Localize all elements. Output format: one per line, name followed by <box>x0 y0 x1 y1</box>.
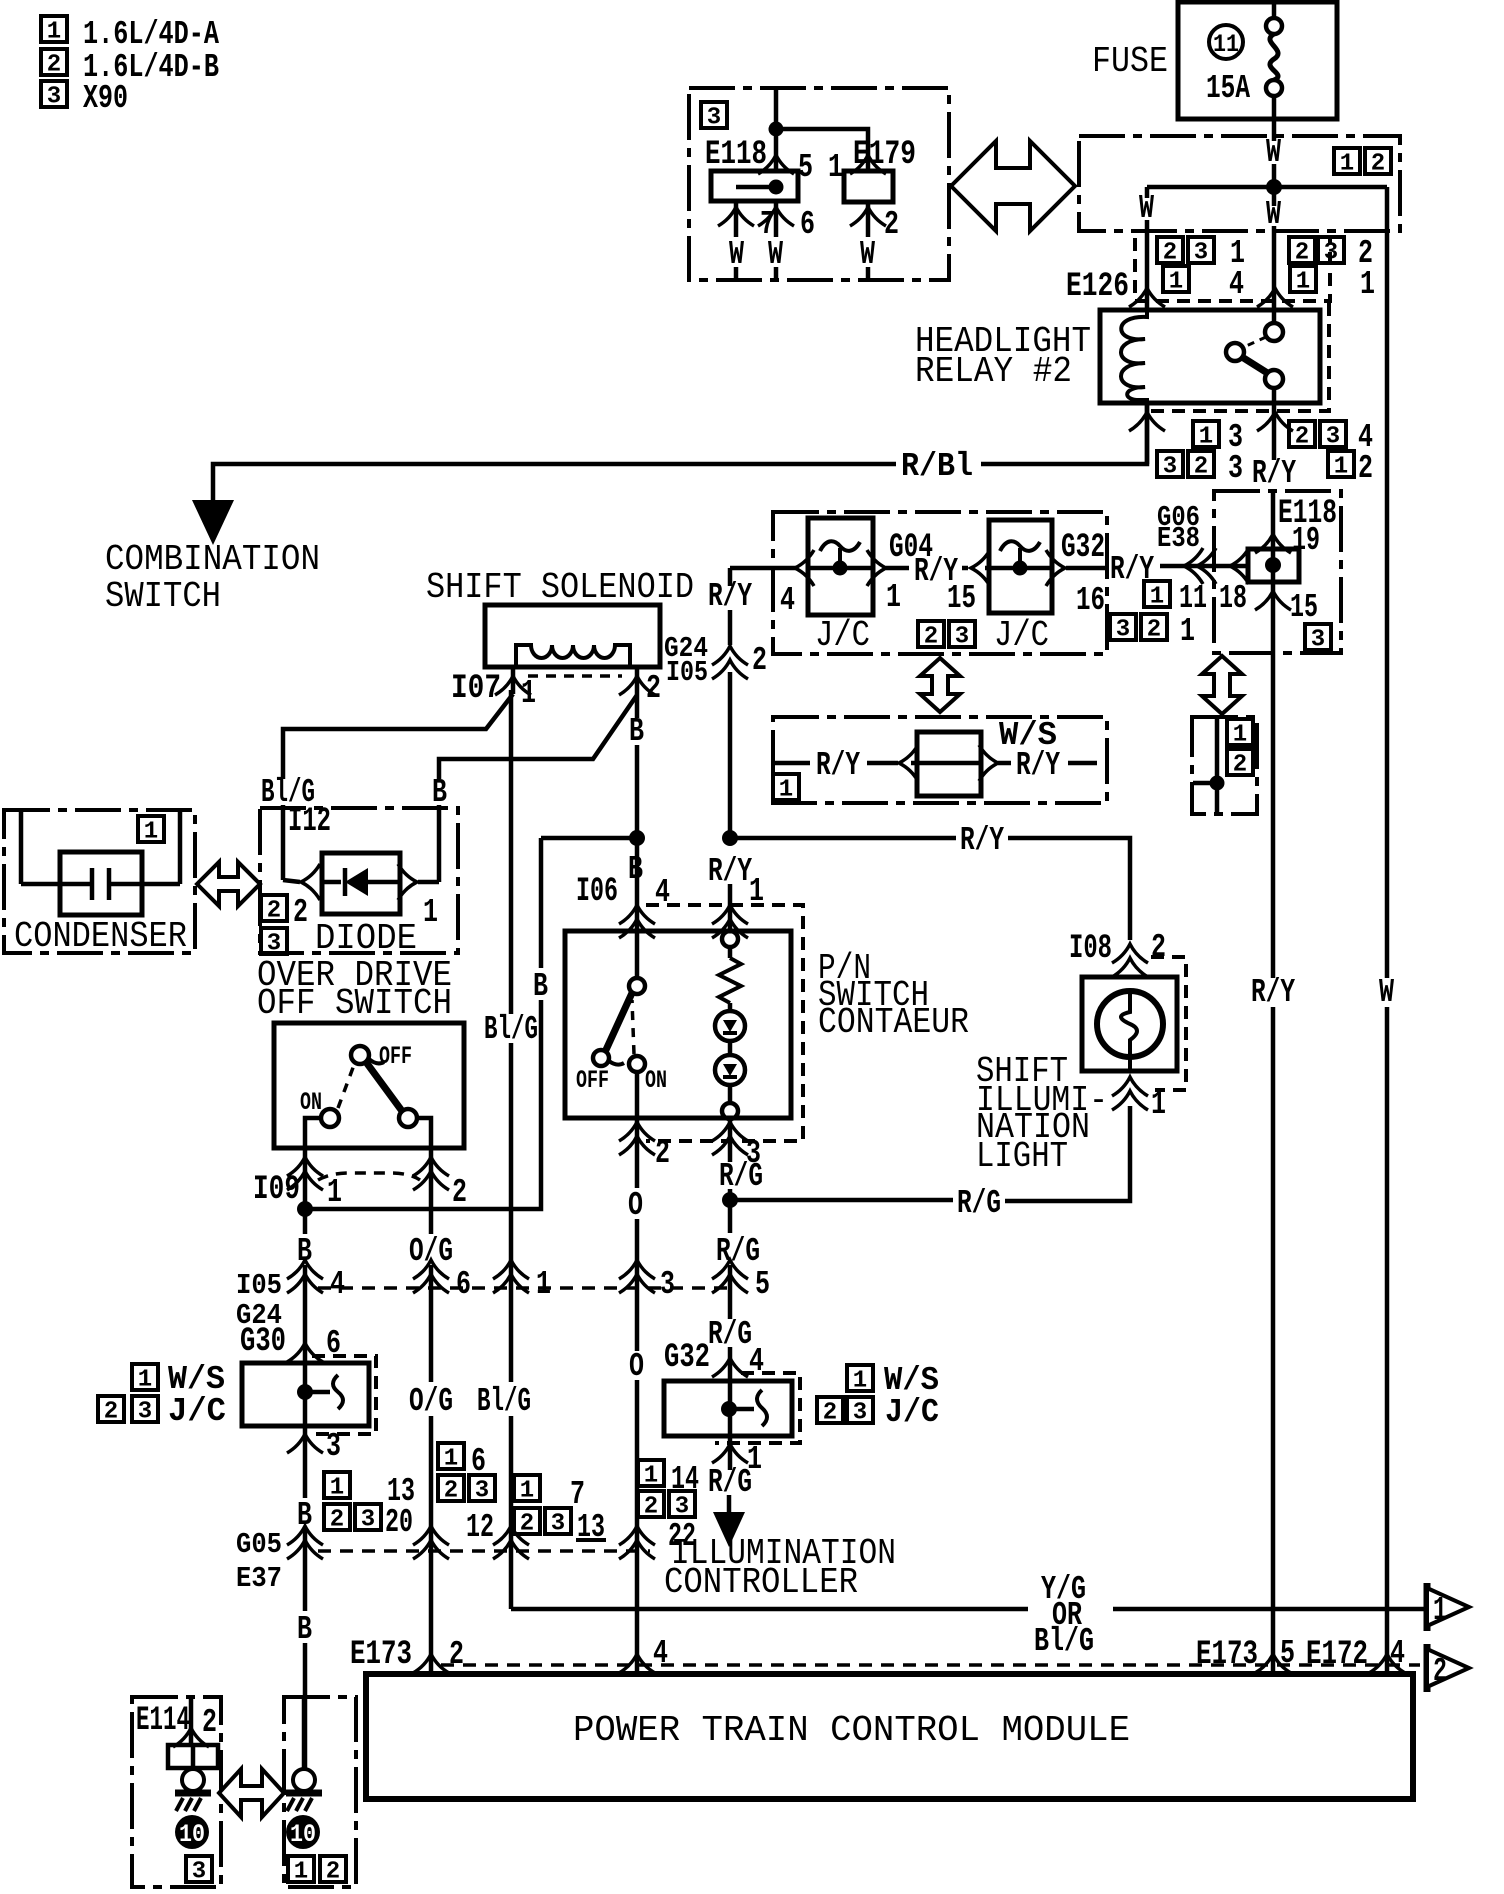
svg-text:B: B <box>297 1233 312 1270</box>
wire R/Y long vertical <box>1271 596 1276 978</box>
node junction <box>1210 776 1225 791</box>
relay contact pivot <box>1226 343 1244 361</box>
svg-text:W: W <box>1379 974 1394 1011</box>
wire B horizontal to dot <box>541 836 637 841</box>
wire R/Y through W/S <box>773 761 810 766</box>
key box 1 <box>773 774 799 804</box>
svg-text:2: 2 <box>1151 929 1166 966</box>
key boxes pin right <box>1289 237 1315 267</box>
wire R/Y into E118 <box>1160 564 1248 569</box>
svg-text:6: 6 <box>456 1266 471 1303</box>
node junction R/Y <box>722 830 738 846</box>
svg-text:G32: G32 <box>1061 529 1105 567</box>
key box 2 <box>1227 749 1253 779</box>
pin chevron E126 right <box>1257 288 1293 307</box>
key box 3 <box>701 102 727 132</box>
connector I09 row <box>303 1148 308 1209</box>
svg-text:2: 2 <box>646 670 661 707</box>
component box diode I12 <box>260 808 458 953</box>
wire R/G branch to lamp <box>730 1198 953 1203</box>
svg-text:E37: E37 <box>236 1562 282 1595</box>
wire B to G30 <box>303 1288 308 1363</box>
svg-text:11: 11 <box>1213 30 1239 59</box>
wire R/Y branch to lamp <box>730 836 956 841</box>
svg-text:I12: I12 <box>288 803 331 841</box>
svg-text:3: 3 <box>1228 450 1243 487</box>
key box 1 W/S label <box>132 1364 158 1394</box>
svg-text:ON: ON <box>300 1088 322 1117</box>
svg-text:B: B <box>629 713 644 750</box>
key labels O column <box>638 1460 664 1490</box>
node junction I09 <box>297 1201 313 1217</box>
svg-text:1: 1 <box>536 1266 551 1303</box>
connector W/S body <box>917 732 981 796</box>
fuse F 15A symbol <box>1272 2 1277 18</box>
wire Bl/G diagonal from pin1 <box>283 694 513 779</box>
svg-text:E114: E114 <box>136 1702 190 1740</box>
svg-text:G30: G30 <box>240 1323 286 1361</box>
svg-text:2: 2 <box>752 642 767 679</box>
switch ON contact P/N <box>629 1056 645 1072</box>
svg-text:15: 15 <box>947 580 976 617</box>
svg-text:B: B <box>297 1611 312 1648</box>
svg-text:OFF SWITCH: OFF SWITCH <box>257 983 452 1024</box>
pin 2 solenoid <box>635 667 640 718</box>
svg-text:4: 4 <box>780 582 795 619</box>
svg-text:DIODE: DIODE <box>315 918 417 959</box>
svg-text:OFF: OFF <box>379 1042 412 1071</box>
pin chevron E126 left <box>1129 288 1165 307</box>
svg-text:R/Y: R/Y <box>1110 551 1154 588</box>
svg-text:G32: G32 <box>664 1339 710 1377</box>
pin 3 G30 <box>287 1434 323 1453</box>
svg-text:R/Y: R/Y <box>708 578 752 615</box>
node junction <box>769 122 784 137</box>
component box variant 1/2 (fuse feed) <box>1079 136 1400 231</box>
switch blade <box>366 1062 402 1111</box>
svg-text:I07: I07 <box>451 670 501 708</box>
svg-text:2: 2 <box>1433 1653 1447 1690</box>
harness arrow condenser-diode <box>197 862 260 906</box>
wire O/G below I05 <box>429 1288 434 1382</box>
key box 1 <box>138 816 164 846</box>
svg-text:R/Bl: R/Bl <box>901 448 973 485</box>
LED 2 <box>715 1055 745 1085</box>
key box 1 W/S label right <box>847 1365 873 1395</box>
wire Bl/G corner to Y/G OR Bl/G <box>511 1607 1028 1612</box>
wire through small box <box>1215 717 1220 814</box>
svg-text:3: 3 <box>326 1428 341 1465</box>
svg-text:R/Y: R/Y <box>1016 747 1060 784</box>
wire W bus horizontal <box>1147 185 1387 190</box>
ground G left <box>175 1769 211 1849</box>
switch ON contact <box>321 1109 339 1127</box>
svg-text:1: 1 <box>423 894 438 931</box>
svg-text:1: 1 <box>327 1174 342 1211</box>
LED 1 <box>715 1011 745 1041</box>
key boxes 1 2 <box>288 1856 314 1886</box>
pin 1 chevron E179 <box>850 155 886 174</box>
svg-text:1: 1 <box>886 579 901 616</box>
key boxes 3 2 pin 1 <box>1110 614 1136 644</box>
wire to E179 <box>776 129 868 171</box>
diode pin 1 chevron <box>398 864 417 900</box>
junction connector G04 body <box>808 518 873 615</box>
pin 18 chevron <box>1230 548 1249 584</box>
legend key box 2 <box>41 49 67 79</box>
key boxes 2 3 <box>918 621 944 651</box>
svg-text:R/G: R/G <box>957 1185 1001 1222</box>
svg-text:19: 19 <box>1292 522 1320 559</box>
pin 11 <box>1144 581 1170 611</box>
key box 1 <box>1227 719 1253 749</box>
key boxes 2 3 J/C label right <box>817 1397 843 1427</box>
component dashed box lamp <box>1151 957 1186 1090</box>
component box condenser <box>4 810 195 953</box>
harness arrow horizontal <box>951 141 1075 231</box>
svg-text:5: 5 <box>755 1266 770 1303</box>
key box 3 <box>186 1856 212 1886</box>
connector I07 row <box>528 674 622 678</box>
key box 3 <box>1305 624 1331 654</box>
svg-text:I06: I06 <box>576 873 618 911</box>
svg-text:20: 20 <box>385 1504 413 1541</box>
resistor R in P/N <box>722 931 738 947</box>
svg-text:J/C: J/C <box>168 1393 226 1430</box>
connector E179 body <box>844 171 893 202</box>
key boxes 2 3 J/C label <box>98 1396 124 1426</box>
wire Bl/G below I05 <box>509 1288 514 1382</box>
relay coil <box>1121 310 1147 403</box>
connector G06/E38 chevrons <box>1184 548 1203 584</box>
key box 1 <box>1334 148 1360 178</box>
component box E118 variant 1/2 <box>1192 717 1257 814</box>
ground G right <box>302 1697 307 1769</box>
svg-text:E38: E38 <box>1157 522 1200 555</box>
svg-text:I08: I08 <box>1069 930 1112 968</box>
svg-text:1: 1 <box>1360 266 1375 303</box>
pin 1 G32 lower <box>712 1444 748 1463</box>
arrow to combination switch <box>192 500 234 545</box>
lamp bulb <box>1097 991 1163 1057</box>
harness arrow vertical E118 <box>1202 656 1242 714</box>
wire B into switch <box>635 838 640 931</box>
key labels B column <box>324 1472 350 1502</box>
wire B below I09 <box>303 1209 308 1234</box>
svg-text:2: 2 <box>449 1636 464 1673</box>
svg-text:1.6L/4D-A: 1.6L/4D-A <box>83 16 219 53</box>
relay contact fixed top <box>1265 323 1283 341</box>
svg-text:G05: G05 <box>236 1528 282 1561</box>
svg-text:B: B <box>628 851 643 888</box>
svg-text:1: 1 <box>828 149 843 186</box>
relay K headlight relay 2 body <box>1100 310 1320 403</box>
svg-text:B: B <box>533 968 548 1005</box>
wire W long vertical <box>1385 187 1390 978</box>
svg-text:Bl/G: Bl/G <box>477 1383 531 1420</box>
key boxes relay lower right <box>1289 421 1315 451</box>
fuse box <box>1178 2 1337 119</box>
component dashed box P/N switch <box>646 905 803 1141</box>
svg-text:4: 4 <box>1229 266 1244 303</box>
wire W left drop <box>1145 187 1150 198</box>
lamp body <box>1082 977 1177 1071</box>
key boxes pin1 left <box>1157 237 1183 267</box>
circled 11 <box>1209 25 1243 59</box>
pin 2 below P/N <box>635 1118 640 1188</box>
component box W/S <box>773 717 1107 803</box>
svg-text:OFF: OFF <box>576 1066 609 1095</box>
wire R/Y through J/C <box>730 566 797 571</box>
relay pin left lower <box>1145 403 1150 464</box>
pin 5 chevron <box>758 155 794 174</box>
svg-text:R/G: R/G <box>716 1233 760 1270</box>
component box E118 variant 3 <box>1214 491 1341 653</box>
component box ground variant 1/2 <box>284 1697 356 1887</box>
svg-text:4: 4 <box>653 1635 668 1672</box>
wire R/Bl horizontal <box>981 403 1147 464</box>
svg-text:3: 3 <box>660 1266 675 1303</box>
harness triangle 2 <box>1424 1644 1431 1692</box>
svg-text:I05: I05 <box>666 656 708 689</box>
svg-text:15: 15 <box>1290 589 1318 626</box>
component box E114 ground <box>132 1697 221 1887</box>
svg-text:16: 16 <box>1076 582 1105 619</box>
arrow to illumination controller <box>713 1512 745 1547</box>
relay contact blade <box>1242 357 1269 374</box>
key box 2 pin2 <box>261 895 287 925</box>
pin 7 chevron <box>734 201 739 237</box>
wire B jog to x541 <box>305 1000 541 1209</box>
switch SW overdrive body <box>274 1023 464 1148</box>
pin 3 below P/N <box>728 1118 733 1162</box>
switch OFF contact <box>351 1046 369 1064</box>
svg-text:18: 18 <box>1219 580 1247 617</box>
svg-text:2: 2 <box>202 1704 217 1741</box>
svg-text:12: 12 <box>466 1509 494 1546</box>
legend key box 1 <box>41 16 67 46</box>
wire pin1 <box>305 1118 321 1148</box>
key box 2 <box>1365 148 1391 178</box>
node junction B <box>629 830 645 846</box>
svg-text:11: 11 <box>1179 580 1207 617</box>
node junction E118 <box>1265 557 1281 573</box>
svg-text:E118: E118 <box>705 136 767 174</box>
svg-text:R/Y: R/Y <box>960 822 1004 859</box>
pin 1 solenoid <box>511 667 516 694</box>
wire R/G below I05 <box>728 1288 733 1319</box>
svg-text:1: 1 <box>1433 1592 1447 1629</box>
node W split <box>1266 179 1282 195</box>
svg-text:R/G: R/G <box>719 1158 763 1195</box>
node junction R/G <box>722 1192 738 1208</box>
svg-text:2: 2 <box>293 894 308 931</box>
wire pin2 <box>417 1118 431 1148</box>
connector E118 body <box>711 171 798 201</box>
diode symbol <box>345 868 368 896</box>
harness arrow vertical J/C to W/S <box>920 658 960 712</box>
connector E114 body <box>168 1745 218 1768</box>
svg-text:22: 22 <box>668 1518 696 1555</box>
connector E118 body <box>1248 549 1299 582</box>
wire O below I05 <box>635 1288 640 1351</box>
switch blade P/N <box>605 993 632 1052</box>
svg-text:1: 1 <box>1180 613 1195 650</box>
svg-text:O: O <box>629 1348 644 1385</box>
svg-text:2: 2 <box>884 206 899 243</box>
svg-text:R/Y: R/Y <box>1251 974 1295 1011</box>
wire Bl/G long from solenoid pin1 <box>509 690 514 1014</box>
legend key box 3 <box>41 81 67 111</box>
svg-text:ON: ON <box>645 1066 667 1095</box>
svg-text:I09: I09 <box>253 1171 300 1209</box>
key boxes relay lower left <box>1193 421 1219 451</box>
svg-text:SHIFT SOLENOID: SHIFT SOLENOID <box>426 567 694 608</box>
svg-text:Bl/G: Bl/G <box>484 1011 538 1048</box>
svg-text:E179: E179 <box>853 136 916 174</box>
svg-text:J/C: J/C <box>994 615 1049 656</box>
svg-text:2: 2 <box>655 1135 670 1172</box>
connector G24/I05 pin 2 <box>712 646 748 679</box>
relay dashed boundary <box>1150 303 1329 411</box>
svg-text:R/Y: R/Y <box>1252 455 1296 492</box>
svg-text:CONDENSER: CONDENSER <box>14 916 187 957</box>
diode D body <box>322 853 400 914</box>
solenoid L body <box>485 605 660 667</box>
svg-text:I05: I05 <box>236 1269 282 1302</box>
svg-text:R/Y: R/Y <box>816 747 860 784</box>
svg-text:2: 2 <box>1358 450 1373 487</box>
pin 15 <box>1255 591 1291 610</box>
pin chevron E114 <box>189 1697 194 1745</box>
solenoid coil <box>516 645 630 667</box>
switch P/N body <box>565 931 791 1118</box>
pin 6 chevron <box>774 201 779 237</box>
svg-text:6: 6 <box>800 206 815 243</box>
harness triangle 1 <box>1424 1583 1431 1631</box>
svg-text:FUSE: FUSE <box>1092 41 1168 82</box>
switch contact top <box>635 931 640 977</box>
diode pin 2 chevron <box>283 880 300 882</box>
key labels Bl/G column <box>514 1475 540 1505</box>
switch common contact <box>399 1109 417 1127</box>
svg-text:O: O <box>628 1187 643 1224</box>
key labels O/G column <box>438 1443 464 1473</box>
svg-text:COMBINATION: COMBINATION <box>105 539 320 580</box>
svg-text:O/G: O/G <box>409 1233 453 1270</box>
svg-text:POWER TRAIN CONTROL MODULE: POWER TRAIN CONTROL MODULE <box>573 1710 1130 1751</box>
svg-text:J/C: J/C <box>885 1394 939 1431</box>
relay pin right lower <box>1272 403 1277 460</box>
svg-text:1: 1 <box>521 675 536 712</box>
key box 3 <box>261 928 287 958</box>
connector E126 dashed box <box>1135 238 1330 301</box>
svg-text:X90: X90 <box>83 80 128 117</box>
svg-text:O/G: O/G <box>409 1383 453 1420</box>
svg-text:1: 1 <box>1151 1086 1166 1123</box>
svg-text:2: 2 <box>452 1174 467 1211</box>
capacitor C condenser <box>60 852 142 915</box>
svg-text:E173: E173 <box>1196 1636 1258 1674</box>
harness arrow grounds <box>219 1769 284 1817</box>
wire from box top <box>774 88 779 171</box>
wire O/G from I09 pin2 <box>429 1209 434 1234</box>
svg-text:E173: E173 <box>350 1636 412 1674</box>
svg-text:LIGHT: LIGHT <box>976 1136 1068 1177</box>
svg-text:E126: E126 <box>1066 268 1129 306</box>
svg-text:15A: 15A <box>1206 70 1250 107</box>
wire R/Y vertical from J/C corner <box>728 568 733 586</box>
svg-text:CONTAEUR: CONTAEUR <box>818 1002 969 1043</box>
component box variant 3 (E118/E179 harness) <box>689 88 949 280</box>
module PCM body <box>366 1674 1413 1799</box>
pin 2 chevron E179 <box>866 202 871 237</box>
svg-text:4: 4 <box>330 1266 345 1303</box>
pin 1 lamp <box>1112 1077 1148 1110</box>
svg-text:SWITCH: SWITCH <box>105 576 221 617</box>
junction connector G32 body <box>989 520 1052 613</box>
svg-text:CONTROLLER: CONTROLLER <box>664 1562 858 1603</box>
wire B diagonal from pin2 <box>439 695 637 779</box>
svg-text:E172: E172 <box>1306 1636 1368 1674</box>
svg-text:Bl/G: Bl/G <box>1034 1623 1094 1660</box>
component box J/C group <box>773 512 1107 654</box>
svg-text:RELAY #2: RELAY #2 <box>915 351 1072 392</box>
wire fuse to W junction <box>1272 96 1277 141</box>
svg-text:J/C: J/C <box>815 615 870 656</box>
